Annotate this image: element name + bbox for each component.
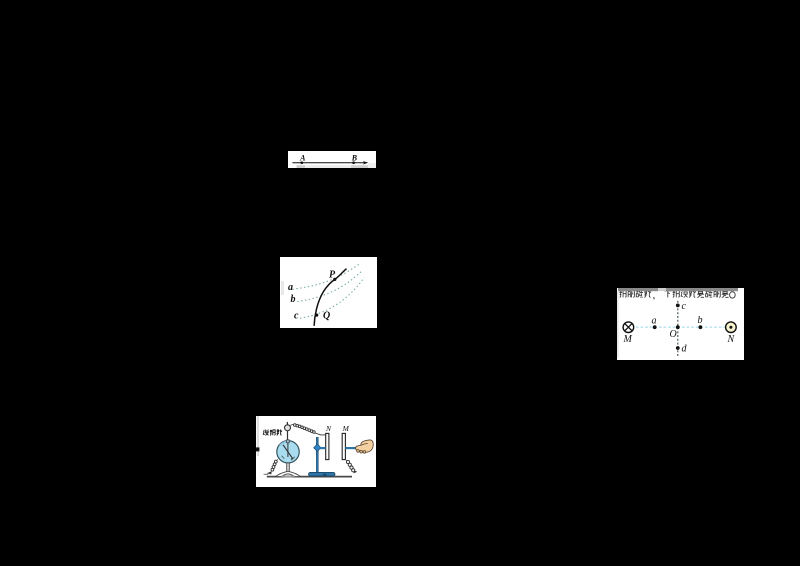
node b: [698, 325, 702, 329]
figure 2: trajectory P-Q crossing equipotential curves a,b,c: [280, 257, 377, 328]
equipotential curve a: [293, 263, 360, 289]
electroscope column: [286, 463, 289, 472]
gray shading strip: [296, 165, 355, 168]
node A: [300, 161, 303, 164]
svg-text:c: c: [681, 301, 686, 312]
plate M: [342, 433, 345, 459]
figure 1: line segment A-B with arrow: [288, 151, 377, 168]
top connecting coil: [293, 423, 315, 433]
svg-text:A: A: [299, 153, 306, 162]
node Q: [315, 313, 318, 316]
svg-text:c: c: [294, 310, 299, 321]
right coil from plate M: [346, 460, 354, 471]
svg-text:N: N: [726, 334, 735, 345]
svg-text:P: P: [329, 269, 336, 280]
plate N: [325, 433, 328, 459]
node O: [675, 325, 679, 329]
figure 4: electrostatic experiment (electroscope, plates M,N, hand): [256, 416, 377, 488]
node B: [352, 161, 355, 164]
electroscope foot: [275, 471, 300, 476]
vertical dashed line c-d: [676, 301, 678, 356]
svg-text:b: b: [697, 315, 702, 326]
node c: [675, 304, 679, 308]
svg-text:M: M: [622, 334, 632, 345]
svg-text:O: O: [669, 329, 676, 340]
wire M (current into page): [623, 322, 634, 333]
rod clamp to plate N: [319, 446, 325, 448]
equipotential curve c: [300, 277, 364, 318]
wire N (current out of page): [725, 322, 736, 333]
svg-text:a: a: [651, 316, 656, 327]
label 静电计 (drawn glyphs): [263, 429, 282, 435]
svg-text:Q: Q: [323, 310, 330, 321]
figure 3: two current-carrying wires M,N with field points a,b,c,d,O: [617, 288, 744, 360]
horizontal dashed line M-N: [635, 326, 724, 328]
svg-text:B: B: [350, 153, 357, 162]
svg-text:b: b: [291, 294, 296, 305]
ground line: [266, 475, 351, 477]
clipped question text (drawn glyphs): [619, 290, 735, 299]
electroscope sphere: [276, 440, 298, 462]
stand pole: [316, 437, 318, 472]
svg-text:a: a: [288, 282, 293, 293]
svg-text:N: N: [324, 424, 331, 433]
equipotential curve b: [297, 270, 362, 301]
electroscope top ball: [286, 421, 288, 424]
clamp: [313, 443, 320, 451]
svg-text:M: M: [341, 424, 349, 433]
trajectory curve through P and Q: [314, 268, 346, 325]
wire: line A to B with arrow: [292, 162, 366, 164]
stand base: [308, 472, 334, 476]
hand: [355, 439, 373, 451]
node d: [675, 346, 679, 350]
left grounding coil: [271, 460, 277, 471]
black tab at left edge: [256, 447, 259, 451]
rod plate M to hand: [345, 446, 355, 448]
svg-text:d: d: [681, 343, 687, 354]
node P: [333, 277, 336, 280]
node a: [652, 325, 656, 329]
